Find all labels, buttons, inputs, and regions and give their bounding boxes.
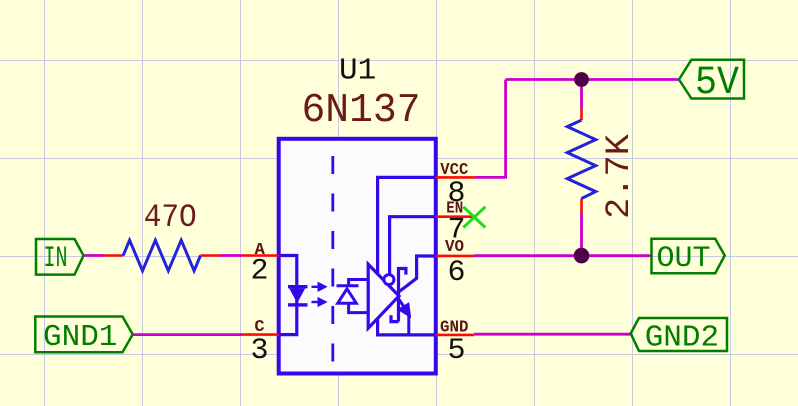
wire pin6 to OUT (474, 254, 651, 257)
svg-text:3: 3 (251, 334, 269, 368)
pin 8 stub (436, 176, 475, 179)
light arrows (312, 284, 326, 306)
isolation dashed line (331, 156, 334, 365)
resistor R2 2.7K body (567, 120, 595, 198)
pin 5 stub (436, 334, 474, 337)
pin 7 stub (436, 215, 474, 218)
LED emitter diode inside U1 (288, 285, 308, 307)
resistor R2 2.7K pins (580, 109, 583, 121)
resistor R1 470 pins (104, 254, 123, 257)
wire internal pin2 to LED bracket (279, 256, 297, 335)
label GND1 (35, 317, 132, 356)
wire GND1 to pin3 (133, 333, 242, 336)
internal VCC net (378, 177, 436, 274)
svg-text:5: 5 (448, 334, 466, 368)
svg-text:2: 2 (251, 255, 269, 289)
svg-text:OUT: OUT (657, 242, 711, 276)
svg-text:6: 6 (448, 256, 466, 290)
svg-text:47O: 47O (144, 199, 197, 236)
svg-text:GND1: GND1 (43, 320, 117, 355)
pin 3 stub (242, 333, 279, 336)
photodiode internal (337, 280, 369, 313)
wire IN to R1 (84, 254, 105, 257)
label 5V (679, 60, 744, 106)
label OUT (652, 239, 725, 276)
internal GND net (378, 318, 436, 335)
pin 2 stub (242, 254, 279, 257)
wire R2 bottom (580, 214, 583, 256)
internal EN net (390, 217, 436, 275)
svg-text:6N137: 6N137 (302, 88, 421, 134)
wire R1 to pin2 (220, 254, 241, 257)
transistor emitter arrow inside U1 (398, 298, 410, 335)
output stage hysteresis / transistor bar inside U1 (391, 267, 406, 322)
pin 6 stub (436, 255, 474, 258)
optocoupler U1 6N137 body (279, 139, 436, 374)
svg-text:5V: 5V (695, 61, 739, 106)
label IN (36, 239, 84, 276)
svg-text:VO: VO (445, 238, 464, 257)
wire pin5 to GND2 (474, 333, 631, 336)
wire R2 top (580, 80, 583, 109)
label GND2 (631, 318, 727, 356)
svg-text:U1: U1 (339, 54, 376, 89)
internal VO net to collector (400, 256, 436, 291)
no-connect X on pin 7 (463, 207, 485, 228)
EN bubble (384, 275, 394, 285)
svg-text:IN: IN (44, 242, 68, 276)
wire 5V rail (506, 78, 679, 81)
wire pin8 to 5V rail (475, 80, 506, 178)
amplifier triangle (368, 264, 399, 328)
junction bottom (574, 248, 590, 264)
junction top (574, 72, 589, 87)
svg-text:2.7K: 2.7K (601, 133, 639, 219)
svg-text:GND2: GND2 (645, 321, 719, 356)
resistor R1 470 body (123, 240, 200, 271)
